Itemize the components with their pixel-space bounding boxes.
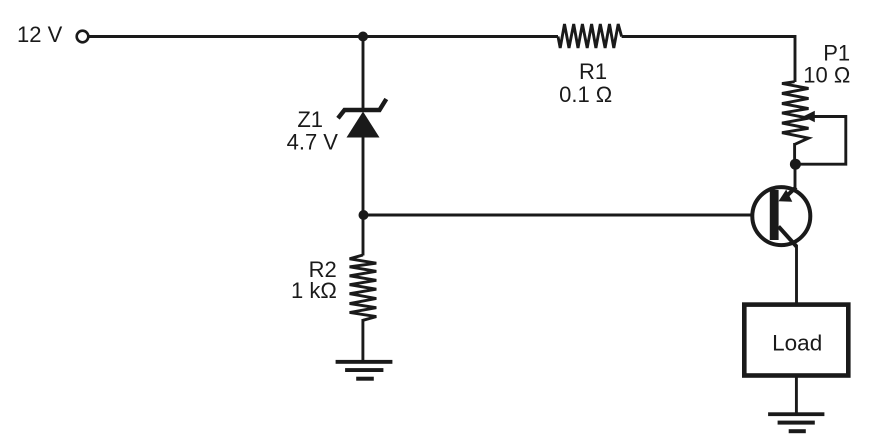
load box	[744, 305, 848, 376]
wire base: Z1/R2 junction to Q1	[363, 214, 770, 217]
svg-text:Z1: Z1	[297, 107, 323, 132]
zener diode Z1	[338, 99, 386, 138]
wire Z1 top	[362, 37, 365, 111]
wire top rail: R1 to P1 (corner down)	[622, 37, 795, 83]
junction P1 wiper / Q1 emitter	[790, 159, 801, 170]
svg-text:10 Ω: 10 Ω	[803, 62, 850, 87]
terminal 12 V input	[77, 31, 89, 43]
wire top rail: terminal to R1	[89, 35, 559, 38]
svg-text:R1: R1	[579, 59, 607, 84]
wire R2 to ground	[361, 319, 364, 361]
junction Z1 / R2 / base	[359, 210, 369, 220]
wire P1 wiper loop	[799, 117, 846, 165]
svg-text:Load: Load	[772, 331, 822, 356]
junction top rail / Z1	[358, 32, 368, 42]
ground (below Load)	[768, 412, 824, 433]
wire Z1 to base junction and on to R2	[362, 136, 365, 256]
potentiometer P1	[782, 82, 809, 145]
P1 wiper arrow	[803, 111, 815, 123]
resistor R1	[558, 24, 622, 48]
wire junction to Q1 emitter	[794, 164, 797, 189]
resistor R2	[350, 255, 377, 320]
transistor Q1 (PNP)	[752, 187, 810, 246]
svg-text:12 V: 12 V	[17, 22, 63, 47]
svg-text:4.7 V: 4.7 V	[287, 130, 339, 155]
wire P1 bottom to wiper junction	[793, 143, 796, 164]
wire Q1 collector to Load	[795, 245, 798, 304]
wire Load to ground	[795, 375, 798, 413]
svg-text:0.1 Ω: 0.1 Ω	[559, 82, 612, 107]
ground (below R2)	[336, 360, 393, 381]
svg-text:1 kΩ: 1 kΩ	[291, 278, 337, 303]
